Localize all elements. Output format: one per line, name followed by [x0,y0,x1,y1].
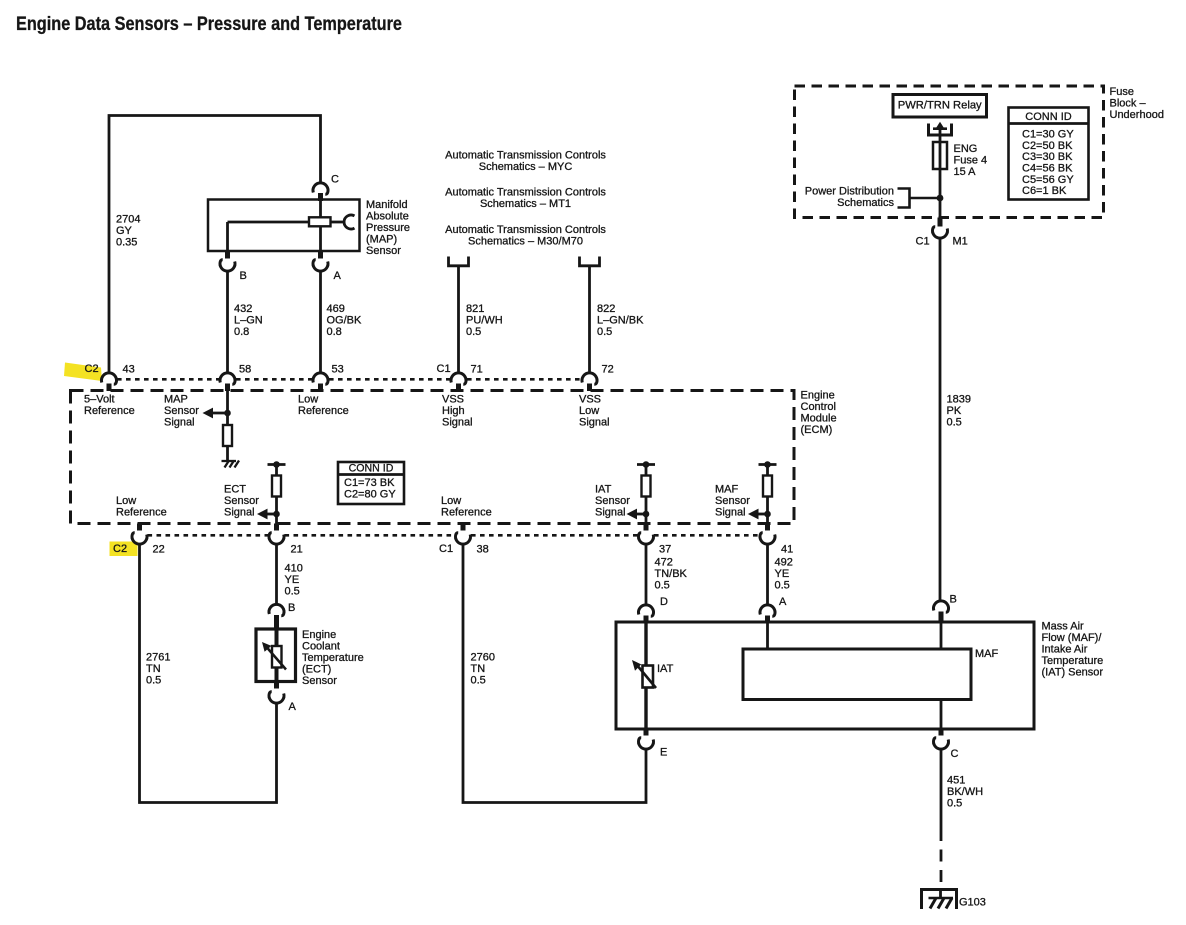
connector pin B of MAP sensor [225,251,230,259]
wire 451 dashed segment to ground [940,829,943,889]
ECM connector pin 71 (C1) [451,373,466,384]
up-arrow on relay feed [933,127,947,130]
svg-text:21: 21 [291,544,303,556]
junction MAP signal [224,410,231,417]
MAF/IAT sensor box [616,622,1034,729]
relay output terminal cup [929,124,952,136]
MAP sensing element (resistor) [309,217,331,226]
fuse ENG Fuse 4 15 A [933,142,947,169]
wire 822 L-GN/BK to ECM pin 72 [588,266,591,373]
svg-text:71: 71 [471,364,483,376]
IAT internal wire [644,624,647,728]
yellow highlight over C2 (bottom) [110,542,138,557]
svg-text:M1: M1 [953,236,968,248]
wire 821 PU/WH to ECM pin 71 [457,266,460,373]
Fuse Block - Underhood dashed enclosure [795,86,1104,218]
svg-text:C2: C2 [113,543,127,555]
svg-text:CONN ID: CONN ID [349,462,394,474]
connector C1 M1 at fuse block [938,218,943,227]
PWR/TRN Relay box [893,95,987,118]
svg-text:C1: C1 [916,236,930,248]
svg-text:C2: C2 [85,363,99,375]
svg-text:43: 43 [123,364,135,376]
wire 1839 PK from fuse block to MAF sensor B [939,238,942,601]
ECM connector pin 21 [274,524,279,531]
svg-text:53: 53 [332,364,344,376]
CONN ID table (fuse block) [1009,108,1089,200]
svg-text:C: C [951,748,959,760]
ECT internal wire [275,630,279,681]
ECM connector pin 72 [582,373,597,384]
svg-text:E: E [660,747,667,759]
ECM connector pin 38 [461,524,466,531]
MAF B internal wire [940,624,943,650]
IAT thermistor (variable resistor) [643,666,654,688]
wire 469 OG/BK from MAP A to ECM pin 53 [319,271,322,373]
Power Distribution Schematics reference bracket [898,189,910,208]
MAF A internal wire [766,624,769,650]
dotted connector line across ECM bottom pins [148,534,269,537]
svg-text:C1: C1 [437,363,451,375]
svg-text:C1: C1 [439,543,453,555]
svg-text:C1=73 BKC2=80 GY: C1=73 BKC2=80 GY [344,477,396,500]
connector pin E of MAF/IAT sensor [644,729,649,736]
connector pin A of MAP sensor [318,251,323,259]
Engine Control Module (ECM) dashed enclosure [71,391,795,524]
MAF element box [743,649,971,700]
wire 451 BK/WH from MAF C [940,749,943,829]
ECM connector pin 53 [313,373,328,384]
connector pin B of ECT sensor [269,604,284,615]
wire 410 YE from ECM pin 21 to ECT B [275,544,278,605]
ECT thermistor (variable resistor) [272,646,282,668]
connector pin C of MAP sensor [313,183,328,194]
ECM connector pin 58 [220,373,235,384]
svg-text:A: A [779,596,787,608]
svg-text:B: B [240,270,247,282]
svg-text:A: A [289,701,297,713]
wire 492 YE from ECM pin 41 to MAF A [766,544,769,606]
wire 2761 TN from ECT A to ECM pin 22 [140,544,277,803]
svg-text:IAT: IAT [657,663,674,675]
svg-text:72: 72 [602,364,614,376]
svg-text:G103: G103 [959,897,986,909]
connector pin A of MAF/IAT sensor [760,605,775,616]
ECM internal pull-up for MAF signal [759,463,777,466]
MAP sensor internal wiring [228,221,311,224]
CONN ID table (ECM) [338,462,404,504]
internal ground symbol [222,460,237,462]
dotted connector line across ECM top pins [117,378,219,381]
svg-text:22: 22 [153,544,165,556]
svg-text:EngineControlModule(ECM): EngineControlModule(ECM) [801,390,837,437]
svg-text:58: 58 [239,364,251,376]
connector pin A of ECT sensor [274,682,279,689]
svg-text:PWR/TRN Relay: PWR/TRN Relay [898,100,982,112]
wire 472 TN/BK from ECM pin 37 to IAT D [645,544,648,606]
ECM connector pin 22 [137,524,142,531]
ECT sensor box [256,629,296,682]
svg-text:B: B [288,602,295,614]
MAP sensor box [208,200,360,252]
svg-text:CONN ID: CONN ID [1025,111,1072,123]
svg-text:D: D [660,596,668,608]
svg-text:C: C [331,174,339,186]
wire 2704 GY loop from MAP C to ECM pin 43 [109,116,321,373]
ground G103 symbol [922,890,957,910]
svg-text:MAF: MAF [975,648,999,660]
yellow highlight over C2 (top) [64,363,102,382]
wire to internal ground [226,446,229,461]
ECM internal resistor (MAP pull) [223,425,232,446]
svg-text:37: 37 [659,544,671,556]
MAF C internal wire [940,700,943,728]
ECM connector pin 43 (C2) [102,373,117,384]
ECM internal pull-up for ECT signal [268,463,286,466]
svg-text:41: 41 [781,544,793,556]
off-page connector bracket (VSS high) [449,257,469,266]
svg-text:Engine Data Sensors – Pressure: Engine Data Sensors – Pressure and Tempe… [16,14,402,35]
svg-text:B: B [950,594,957,606]
arrow MAP Sensor Signal [203,408,228,419]
svg-text:A: A [334,270,342,282]
connector pin D of MAF/IAT sensor [639,605,654,616]
connector pin B of MAF/IAT sensor [934,601,949,612]
MAP pressure port symbol [344,215,354,229]
connector pin C of MAF/IAT sensor [939,729,944,736]
svg-text:38: 38 [477,544,489,556]
svg-text:Automatic Transmission Control: Automatic Transmission ControlsSchematic… [445,224,606,248]
off-page connector bracket (VSS low) [580,257,600,266]
ECM connector pin 37 [644,524,649,531]
wire 432 L-GN from MAP B to ECM pin 58 [226,271,229,373]
ECM internal pull-up for IAT signal [637,463,655,466]
wire 2760 TN from ECM pin 38 to IAT E [463,544,646,803]
feed wire from relay through ENG Fuse 4 [939,126,942,218]
junction on fuse output [937,195,944,202]
ECM connector pin 41 [765,524,770,531]
ECM internal wire MAP signal [226,391,229,425]
